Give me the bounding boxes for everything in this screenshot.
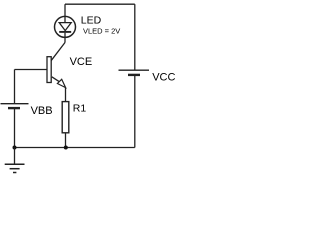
wire VBB top (14, 70, 16, 104)
wire LED anode (64, 4, 66, 17)
transistor Q1 (47, 43, 66, 88)
wire R1 bottom (65, 133, 67, 148)
svg-text:LED: LED (81, 15, 102, 27)
svg-text:VCC: VCC (152, 72, 175, 84)
wire top rail (65, 3, 135, 5)
svg-text:VBB: VBB (31, 105, 53, 117)
wire bottom rail (15, 147, 135, 149)
svg-text:VLED = 2V: VLED = 2V (83, 27, 120, 36)
wire VBB bottom (14, 109, 16, 148)
wire collector diagonal (51, 43, 65, 61)
resistor R1 (62, 102, 69, 133)
base bar (47, 57, 51, 83)
ground (5, 148, 25, 173)
wire base (15, 69, 48, 71)
battery VCC (119, 70, 150, 75)
svg-text:VCE: VCE (70, 56, 93, 68)
junction dot left (13, 146, 17, 150)
wire emitter diagonal (52, 77, 60, 82)
junction dot R1 (64, 146, 68, 150)
LED D1 (55, 16, 76, 42)
svg-text:R1: R1 (73, 102, 87, 114)
emitter arrowhead (57, 79, 65, 87)
wire emitter vertical (65, 88, 67, 103)
wire VCC to bottom (134, 76, 136, 148)
wire VCC drop (134, 4, 136, 70)
battery VBB (1, 104, 29, 108)
